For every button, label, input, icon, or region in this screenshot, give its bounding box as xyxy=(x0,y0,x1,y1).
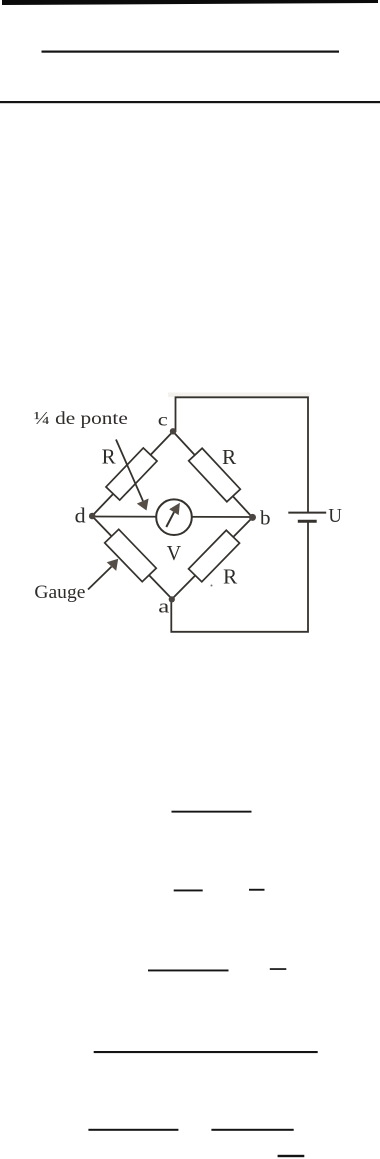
node b xyxy=(249,514,256,521)
faint scan shadow above circuit xyxy=(168,393,310,398)
node d xyxy=(89,513,96,520)
node a xyxy=(169,596,175,602)
equation fraction bar 5a xyxy=(88,1129,178,1131)
wire a to bottom rail and up to battery xyxy=(171,523,308,632)
equation fraction bar 6 xyxy=(278,1155,305,1157)
svg-text:c: c xyxy=(158,410,168,430)
svg-text:V: V xyxy=(167,541,182,565)
wire a-b xyxy=(172,518,253,600)
gauge annotation arrow xyxy=(88,559,118,590)
voltmeter needle xyxy=(166,503,180,527)
resistor R (d-c arm) xyxy=(106,448,157,500)
svg-text:Gauge: Gauge xyxy=(34,582,85,603)
wire d-b through meter xyxy=(92,516,253,519)
wire d-a xyxy=(92,516,172,599)
equation fraction bar 3a xyxy=(148,970,229,972)
wire d-c xyxy=(92,432,173,517)
top header thick bar xyxy=(2,0,378,5)
svg-text:b: b xyxy=(260,508,271,530)
gauge resistor (d-a arm) xyxy=(105,529,157,581)
svg-text:a: a xyxy=(158,598,169,618)
wire c-b xyxy=(173,432,253,518)
quarter-bridge annotation arrow xyxy=(116,440,149,511)
voltmeter V circle xyxy=(156,499,192,535)
battery U long plate xyxy=(288,512,326,514)
equation fraction bar 1 xyxy=(172,811,252,813)
equation fraction bar 3b xyxy=(270,968,287,970)
svg-text:U: U xyxy=(328,506,342,527)
resistor R (c-b arm) xyxy=(189,448,241,502)
equation fraction bar 4 xyxy=(94,1051,318,1053)
equation fraction bar 5b xyxy=(211,1129,293,1131)
battery U short plate xyxy=(298,520,317,523)
speck below R bottom-right xyxy=(211,585,213,587)
svg-text:R: R xyxy=(222,445,236,469)
wire c to top rail and down to battery xyxy=(176,397,309,511)
resistor R (a-b arm) xyxy=(189,530,240,582)
svg-text:¼ de ponte: ¼ de ponte xyxy=(34,408,128,428)
header underline xyxy=(42,51,340,53)
equation fraction bar 2a xyxy=(174,890,203,892)
svg-text:R: R xyxy=(102,444,116,468)
node c xyxy=(170,428,176,434)
svg-text:d: d xyxy=(75,504,86,528)
svg-text:R: R xyxy=(223,565,237,589)
equation fraction bar 2b xyxy=(249,889,265,891)
header separator rule xyxy=(0,101,380,103)
